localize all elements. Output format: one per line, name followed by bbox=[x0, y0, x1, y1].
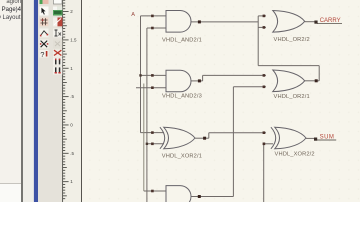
svg-text:A: A bbox=[131, 12, 135, 18]
svg-text:VHDL_AND2/3: VHDL_AND2/3 bbox=[162, 93, 202, 99]
svg-text:1: 1 bbox=[70, 179, 73, 184]
svg-text:VHDL_OR2/2: VHDL_OR2/2 bbox=[274, 37, 310, 43]
svg-text:VHDL_OR2/1: VHDL_OR2/1 bbox=[274, 94, 310, 100]
svg-text:0: 0 bbox=[70, 123, 73, 128]
svg-text:.5: .5 bbox=[70, 94, 74, 99]
svg-text:VHDL_XOR2/2: VHDL_XOR2/2 bbox=[275, 152, 315, 158]
svg-text:1: 1 bbox=[70, 66, 73, 71]
svg-text:2: 2 bbox=[70, 9, 73, 14]
svg-text:?: ? bbox=[40, 50, 44, 59]
svg-text:SUM: SUM bbox=[320, 135, 335, 141]
svg-text:CARRY: CARRY bbox=[320, 18, 341, 24]
svg-text:.5: .5 bbox=[70, 151, 74, 156]
svg-text:VHDL_AND2/1: VHDL_AND2/1 bbox=[162, 37, 202, 43]
svg-text:1.5: 1.5 bbox=[70, 38, 77, 43]
svg-text:VHDL_XOR2/1: VHDL_XOR2/1 bbox=[162, 153, 202, 159]
